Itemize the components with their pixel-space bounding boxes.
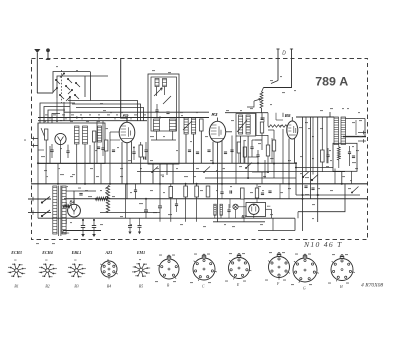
IF transformer S10 bbox=[192, 118, 196, 134]
resistor R23 bbox=[105, 140, 108, 151]
wire right verticals bbox=[303, 117, 328, 231]
valve socket b bbox=[155, 255, 179, 288]
bus wire y218 bbox=[38, 218, 295, 230]
mains transformer T1 secondary bbox=[62, 186, 66, 234]
tube B5 label bbox=[285, 113, 291, 118]
annotation bottom right bbox=[361, 283, 383, 289]
svg-text:G: G bbox=[303, 287, 306, 291]
bus wire y222 bbox=[213, 221, 265, 223]
coil S4 bbox=[98, 126, 102, 142]
wire switch staircase left bbox=[40, 103, 75, 123]
choke S16 bbox=[220, 204, 222, 215]
padding trimmer C1 bbox=[41, 128, 47, 140]
wire B3 leads bbox=[213, 118, 222, 223]
earth terminal bbox=[46, 49, 50, 60]
svg-text:ECH4: ECH4 bbox=[41, 250, 52, 255]
title 789 A bbox=[315, 74, 348, 88]
capacitor C29 bbox=[227, 204, 230, 218]
wire B5 top bbox=[283, 113, 292, 121]
capacitor C36 bbox=[304, 186, 314, 190]
coil S2 primary bbox=[75, 126, 80, 144]
wire dial line bbox=[121, 58, 127, 123]
coil labels bbox=[56, 66, 285, 111]
svg-text:B4: B4 bbox=[107, 285, 111, 289]
trimmer C16 bbox=[183, 121, 192, 130]
resistor R3 label bbox=[212, 112, 218, 117]
wave-band switch S1 frame bbox=[53, 70, 108, 103]
switch contacts lower bbox=[151, 163, 252, 173]
resistor R14 bbox=[195, 184, 199, 222]
capacitor C44 bbox=[101, 140, 104, 156]
IF transformer 2 box bbox=[236, 114, 256, 137]
resistor R8 bbox=[272, 130, 275, 164]
wire coil box internals bbox=[46, 140, 94, 164]
bus wire y195 dotted bbox=[296, 194, 360, 196]
wire bottom right verticals bbox=[295, 163, 297, 195]
socket diagram B4 (AZ1) bbox=[100, 260, 118, 280]
capacitor C2 bbox=[50, 144, 53, 158]
svg-text:B5: B5 bbox=[285, 113, 291, 118]
socket diagram B2 bbox=[39, 260, 57, 278]
valve socket f bbox=[265, 252, 290, 286]
wire switch to oscillator bbox=[68, 101, 144, 121]
svg-text:R3: R3 bbox=[212, 112, 218, 117]
IF transformer S9 bbox=[184, 118, 188, 134]
bus wire y163 bbox=[38, 162, 296, 164]
resistor R7 bbox=[266, 135, 269, 172]
electrolytic C32 bbox=[81, 220, 85, 237]
wire B5 leads bbox=[274, 129, 295, 184]
bus wire y117 bbox=[38, 117, 209, 119]
svg-text:EM1: EM1 bbox=[136, 250, 145, 255]
wire right area verticals bbox=[306, 112, 330, 175]
resistor R13 bbox=[184, 184, 188, 222]
capacitor C40 bbox=[261, 191, 272, 195]
resistor R26 bbox=[243, 147, 246, 163]
svg-text:B1: B1 bbox=[14, 285, 18, 289]
extra scatter labels bbox=[44, 76, 362, 225]
coil S7 bbox=[154, 119, 160, 131]
resistor R25 bbox=[237, 142, 240, 163]
wire switch staircase upper bbox=[85, 72, 90, 101]
coil S12 bbox=[246, 115, 250, 134]
capacitor C13 bbox=[166, 112, 169, 114]
capacitor C45 bbox=[261, 118, 264, 120]
tone switch bbox=[302, 172, 318, 181]
coil S5 bbox=[155, 79, 159, 87]
bus wire y120.5 bbox=[38, 120, 147, 122]
wire grid links bbox=[268, 113, 287, 133]
electrolytic C43 bbox=[138, 218, 142, 234]
filament choke bbox=[63, 205, 71, 208]
bus wire y112 long bbox=[64, 108, 209, 112]
resistor R5 bbox=[200, 119, 204, 131]
oscillator triode B1 bbox=[55, 133, 66, 144]
socket diagram B1 bbox=[8, 260, 26, 278]
field coil box bbox=[333, 143, 357, 171]
lamp box bbox=[246, 203, 266, 217]
wire IFT1 leads bbox=[184, 118, 204, 185]
label 24.5V bbox=[64, 233, 69, 234]
output transformer S13 bbox=[334, 117, 339, 145]
capacitor C18 bbox=[207, 150, 227, 154]
oscillator coil assembly box bbox=[148, 74, 179, 164]
valve socket g bbox=[291, 254, 319, 291]
tube type labels bbox=[10, 250, 145, 255]
resistor R2 bbox=[93, 131, 96, 142]
wire AVC verticals bbox=[232, 129, 283, 184]
valve socket h bbox=[328, 254, 355, 289]
tube B2 label bbox=[123, 113, 129, 118]
resistor R10 bbox=[268, 125, 287, 128]
smoothing resistor R15 bbox=[96, 197, 108, 200]
wire lamp links bbox=[215, 206, 272, 219]
capacitor C37 bbox=[326, 148, 329, 163]
capacitor C42 bbox=[144, 157, 146, 160]
resistor R12 bbox=[106, 184, 126, 218]
capacitor C21 bbox=[256, 150, 259, 164]
electrolytic C34 bbox=[128, 218, 132, 234]
svg-text:N10 46 T: N10 46 T bbox=[303, 240, 343, 249]
bus wire y172 bbox=[137, 171, 345, 173]
svg-text:B5: B5 bbox=[139, 285, 143, 289]
wire det extra verticals bbox=[264, 113, 276, 164]
wire top junctions bbox=[76, 117, 161, 119]
resistor R11 bbox=[337, 144, 340, 168]
rectifier tube B4 bbox=[68, 204, 81, 217]
output transformer S14 bbox=[341, 117, 346, 145]
resistor R22 bbox=[255, 184, 258, 203]
capacitor C22 bbox=[250, 140, 253, 157]
tube B2 bbox=[119, 122, 135, 142]
wire pickup left bbox=[271, 59, 278, 84]
resistor R21 bbox=[206, 186, 210, 197]
antenna terminal A bbox=[34, 49, 40, 93]
wire heater line bbox=[63, 213, 295, 235]
capacitor C12 bbox=[155, 104, 158, 117]
mains transformer T1 primary bbox=[53, 186, 57, 234]
resistor R1 bbox=[45, 129, 48, 140]
choke S15 bbox=[214, 204, 216, 215]
valve socket c bbox=[190, 254, 217, 289]
trimmer C20 bbox=[237, 120, 247, 132]
svg-text:ECH3: ECH3 bbox=[10, 250, 21, 255]
capacitor C30 bbox=[230, 190, 232, 193]
capacitor C39 bbox=[220, 184, 223, 199]
annotation N1046T bbox=[303, 240, 343, 249]
svg-text:B7: B7 bbox=[242, 213, 248, 218]
capacitor C14 bbox=[112, 150, 115, 152]
svg-text:AZ1: AZ1 bbox=[104, 250, 112, 255]
coil S8 bbox=[170, 119, 177, 131]
capacitor C38 bbox=[175, 199, 178, 212]
coil S6 bbox=[163, 79, 167, 87]
bus value labels bbox=[45, 114, 146, 119]
wire switch drops bbox=[57, 97, 70, 121]
electrolytic C33 bbox=[92, 220, 96, 237]
wire AF coupling bbox=[258, 163, 274, 184]
wire antenna to switch bbox=[37, 92, 53, 94]
volume control R9 bbox=[260, 92, 263, 113]
detector wires bbox=[241, 113, 262, 178]
wire misc horiz bbox=[38, 120, 283, 150]
svg-text:B2: B2 bbox=[45, 285, 49, 289]
bus wire y199 (heater+) bbox=[64, 198, 368, 200]
wire field coil links bbox=[296, 163, 359, 193]
coil S3 secondary bbox=[83, 126, 88, 144]
mains input wires bbox=[28, 197, 51, 215]
pick-up terminal D bbox=[276, 49, 293, 59]
pilot lamp B7 bbox=[242, 204, 260, 218]
resistor R6 bbox=[260, 122, 263, 150]
capacitor C24 bbox=[348, 146, 351, 166]
resistor R19 bbox=[321, 145, 325, 172]
socket diagram B3 bbox=[68, 260, 86, 278]
tube position labels bbox=[14, 285, 143, 289]
wire tone return bbox=[298, 169, 345, 219]
svg-text:B3: B3 bbox=[74, 285, 78, 289]
resistor R4 bbox=[139, 142, 142, 184]
tube B3 bbox=[209, 121, 225, 142]
bus wire y178 bbox=[60, 174, 296, 178]
junction dots bbox=[37, 117, 342, 221]
wire plate line B3 to OT bbox=[226, 117, 334, 132]
svg-text:EBL1: EBL1 bbox=[71, 250, 82, 255]
capacitor C27 4uF bbox=[139, 199, 148, 218]
wire osc box internals bbox=[157, 87, 173, 141]
wire osc box bottom leads bbox=[151, 140, 176, 184]
connector terminals left bbox=[31, 137, 38, 148]
socket diagram B5 (EM1) bbox=[132, 259, 150, 277]
capacitor C41 bbox=[132, 146, 135, 160]
capacitor C31 bbox=[78, 188, 83, 196]
wire AF verticals bbox=[230, 184, 289, 222]
resistor R20 bbox=[169, 184, 173, 222]
capacitor C26 bbox=[134, 184, 137, 199]
wire detector links bbox=[248, 130, 274, 172]
wiper arrow R9 bbox=[247, 98, 261, 107]
wire B2 leads bbox=[110, 132, 132, 199]
wire rectifier output bbox=[66, 191, 96, 204]
bus wire y184 (HT) bbox=[31, 183, 368, 185]
svg-text:D: D bbox=[282, 51, 286, 57]
capacitor C28 40uF bbox=[153, 184, 162, 222]
aerial coil assembly box bbox=[38, 123, 105, 164]
wire pickup right bbox=[262, 59, 292, 93]
coil S11 bbox=[239, 115, 243, 134]
trimmer C10 arrow bbox=[154, 88, 162, 96]
wire left box verticals bbox=[50, 121, 103, 164]
switch S1 contacts bbox=[53, 73, 80, 101]
loudspeaker frame bbox=[343, 119, 366, 137]
bus wire y112 bbox=[225, 112, 268, 114]
label 24B bbox=[24, 140, 309, 245]
wire left verticals bbox=[38, 123, 110, 218]
tube B5 bbox=[287, 121, 298, 139]
valve socket e bbox=[225, 253, 251, 287]
speaker connector bbox=[358, 131, 366, 143]
capacitor C25 bbox=[352, 156, 355, 158]
svg-text:H: H bbox=[339, 285, 343, 289]
mains transformer core bbox=[59, 186, 61, 237]
capacitor C3 bbox=[66, 145, 69, 158]
trimmer C11 arrow bbox=[163, 96, 171, 104]
svg-text:789 A: 789 A bbox=[315, 74, 348, 88]
pilot lamp B6 bbox=[233, 204, 238, 218]
schematic dashed border bbox=[32, 59, 368, 240]
svg-text:4 R70X08: 4 R70X08 bbox=[361, 283, 383, 289]
capacitor C17 bbox=[188, 150, 199, 154]
wire transformer taps bbox=[65, 202, 67, 224]
capacitor C15 bbox=[145, 142, 148, 160]
rectifier B4 label bbox=[70, 200, 76, 205]
capacitor C5 bbox=[97, 147, 100, 149]
mains switch SK bbox=[41, 197, 50, 217]
value labels bbox=[41, 108, 362, 227]
resistor R16 bbox=[241, 188, 245, 199]
capacitor C35 bbox=[230, 150, 233, 152]
